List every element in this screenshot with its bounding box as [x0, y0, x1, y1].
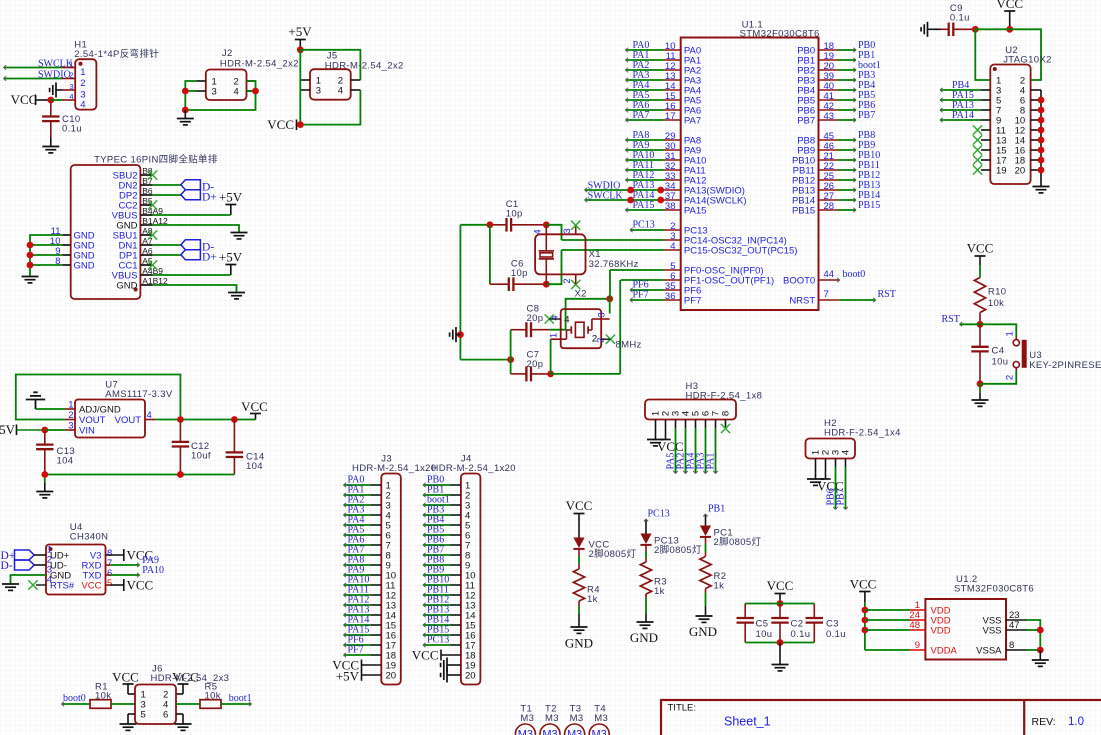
power flag VCC at U4 pin5: [124, 578, 153, 593]
wire PB8: [838, 138, 856, 142]
svg-text:PF7: PF7: [633, 289, 649, 300]
net label PA13 at J3: [348, 605, 370, 616]
svg-text:0.1u: 0.1u: [950, 13, 970, 24]
wire VCC bus U1.2: [864, 602, 866, 650]
svg-text:VCC: VCC: [127, 578, 154, 593]
wire PA10 to J3: [344, 583, 372, 587]
svg-text:10k: 10k: [95, 691, 111, 702]
svg-text:PF7: PF7: [348, 645, 364, 656]
net label PA15 at J3: [348, 625, 370, 636]
wire H2 pin3: [833, 459, 837, 510]
mounting hole T1 M3: [515, 704, 535, 735]
svg-text:AMS1117-3.3V: AMS1117-3.3V: [105, 389, 173, 400]
wire C8 to PF0 net: [550, 299, 610, 330]
svg-text:2: 2: [595, 338, 606, 343]
ground at J4 pin20: [441, 668, 461, 683]
junction C4 bottom: [977, 380, 984, 387]
capacitor C8 20p: [511, 304, 550, 338]
net label PB9: [858, 140, 875, 151]
wire PB1 to LED: [703, 514, 707, 526]
svg-text:GND: GND: [565, 636, 593, 651]
ground below C10: [42, 138, 59, 153]
wire H2 pin1 to ground: [815, 459, 817, 479]
svg-text:VCC: VCC: [566, 498, 593, 513]
power flag VCC at H1 pin4: [11, 92, 51, 107]
svg-text:D+: D+: [202, 191, 217, 203]
net label PA7: [633, 110, 650, 121]
svg-text:VCC: VCC: [850, 577, 877, 592]
wire PA3 to U1.1: [626, 78, 665, 82]
net label boot0: [843, 269, 866, 280]
connector J2 labels: [220, 48, 299, 70]
svg-text:VCC: VCC: [11, 92, 38, 107]
net label PA3: [633, 70, 650, 81]
wire U2 right ground bus: [1040, 90, 1042, 186]
svg-text:R10: R10: [988, 287, 1006, 298]
svg-text:4: 4: [338, 86, 343, 97]
net label PA4: [633, 80, 650, 91]
wire PF6 to J3: [344, 643, 372, 647]
no-connect H3 pin8: [721, 420, 730, 434]
wire J6 pin6 to ground: [176, 714, 183, 724]
junction SWDIO b: [657, 187, 664, 194]
wire U2 pin1 vertical: [975, 29, 990, 80]
wire cap rail bottom: [745, 642, 814, 644]
capacitor C1 10p: [490, 199, 546, 232]
svg-text:10u: 10u: [992, 357, 1009, 368]
crystal X2 pin4 no-connect: [545, 314, 570, 325]
wire LED to R4: [578, 549, 580, 565]
junction C9 right: [972, 26, 979, 33]
wire PB8 to J4: [423, 563, 451, 567]
connector J3 labels: [352, 454, 436, 475]
power flag +5V at VBUS A4B9: [219, 250, 243, 276]
svg-text:PF7: PF7: [684, 296, 701, 307]
ic U1.2 VDD pins: [909, 600, 957, 657]
wire PF1 to crystal X2: [621, 279, 664, 281]
svg-text:PA15: PA15: [684, 206, 707, 217]
net label PA10: [633, 150, 655, 161]
svg-text:9: 9: [915, 640, 920, 651]
wire PB6: [838, 108, 856, 112]
wire PB12 to J4: [423, 603, 451, 607]
net label PA7 at J3: [348, 545, 365, 556]
svg-text:4: 4: [564, 315, 569, 326]
ic U2 right pin stubs: [1031, 90, 1041, 170]
power flag VCC at J6 pin1: [112, 670, 139, 695]
power flag VCC at H3 pin2: [657, 439, 684, 454]
svg-text:RTS#: RTS#: [50, 581, 75, 592]
net label PA2 at J3: [348, 495, 365, 506]
svg-text:VOUT: VOUT: [115, 415, 142, 426]
net label PA15 at U2: [952, 90, 974, 101]
svg-text:VSSA: VSSA: [976, 646, 1002, 657]
net label PA13: [633, 180, 655, 191]
svg-text:M3: M3: [567, 729, 582, 735]
svg-text:HDR-M-2.54_2x3: HDR-M-2.54_2x3: [151, 673, 230, 684]
wire V3 to VCC flag: [106, 554, 124, 556]
junction cap rail bottom: [777, 639, 784, 646]
junction VSS47: [1037, 627, 1044, 634]
connector H1 pins and pin numbers: [62, 60, 86, 111]
connector J4 pin stubs: [451, 485, 461, 645]
wire RST stub: [960, 322, 981, 326]
wire PA14 to J3: [344, 623, 372, 627]
wire PB7 to J4: [423, 553, 451, 557]
crystal X2 pin1 stub: [549, 333, 561, 339]
svg-text:PB7: PB7: [858, 110, 875, 121]
net label PB10 at J4: [427, 575, 449, 586]
capacitor C12 10uf: [172, 420, 211, 475]
connector J5 body and pin names: [310, 69, 351, 100]
net label SWDIO at U1.1: [588, 180, 621, 191]
svg-text:20p: 20p: [527, 313, 544, 324]
wire H3 pin4: [683, 420, 687, 474]
wire SWDIO to PA13: [585, 188, 664, 192]
junction VCC cap rail top: [777, 600, 784, 607]
svg-text:GND: GND: [116, 281, 137, 292]
svg-text:VCC: VCC: [241, 399, 268, 414]
svg-text:20: 20: [465, 671, 476, 682]
ic U4 labels: [70, 522, 109, 543]
svg-text:1: 1: [1005, 331, 1016, 336]
net label PB6 at H2: [826, 488, 837, 505]
net label PA10 at J3: [348, 575, 370, 586]
svg-text:19: 19: [996, 166, 1007, 177]
wire TYPEC left GND bus: [30, 235, 62, 276]
wire PA11 to J3: [344, 593, 372, 597]
wire PB10 to J4: [423, 583, 451, 587]
wire J5 pin1 to VCC: [299, 50, 301, 125]
svg-text:10p: 10p: [511, 268, 528, 279]
svg-text:VIN: VIN: [79, 426, 95, 437]
net label PB14: [858, 190, 880, 201]
connector USB TYPEC body: [71, 165, 141, 299]
svg-text:M3: M3: [545, 713, 559, 724]
svg-text:J2: J2: [222, 48, 233, 59]
wire PF0 to crystal X2: [610, 269, 664, 271]
wire D- to UD-: [34, 564, 46, 566]
ground at A1B12: [228, 293, 245, 299]
svg-text:44: 44: [824, 269, 835, 280]
junction ground rail: [457, 331, 464, 338]
wire PF0 vertical to X2 pin3: [609, 270, 611, 314]
wire VSS bus: [1026, 620, 1040, 650]
wire PA9 to J3: [344, 573, 372, 577]
power flag +5V at VBUS B4A9: [219, 190, 243, 216]
svg-text:RST: RST: [942, 314, 960, 325]
svg-text:VCC: VCC: [112, 670, 139, 685]
svg-text:M3: M3: [542, 729, 557, 735]
junction VDD48: [862, 627, 869, 634]
wire VBUS B4A9: [153, 214, 231, 216]
wire LED to R3: [645, 545, 647, 558]
power flag +5V at VIN: [0, 422, 45, 437]
net label PB1 at J4: [427, 485, 444, 496]
wire VCC to LED: [578, 514, 580, 538]
connector J6 labels: [151, 664, 230, 685]
svg-text:M3: M3: [570, 713, 584, 724]
wire PA8 to J3: [344, 563, 372, 567]
svg-text:4: 4: [841, 450, 852, 455]
net label PB14 at J4: [427, 615, 449, 626]
wire SWCLK to PA14: [585, 198, 664, 202]
wire PA2 to U1.1: [626, 68, 665, 72]
net label PA9: [633, 140, 650, 151]
svg-text:1k: 1k: [714, 581, 725, 592]
net label PA0: [633, 40, 650, 51]
svg-text:boot1: boot1: [229, 693, 252, 704]
wire VCC to H1 pin4: [51, 99, 62, 101]
resistor R4 1k: [573, 565, 599, 607]
connector H1 reference and value labels: [74, 40, 159, 61]
svg-text:VCC: VCC: [81, 581, 101, 592]
title block border: [661, 700, 1101, 735]
wire PA2 to J3: [344, 503, 372, 507]
wire X1 pin4 to PC14: [546, 225, 561, 240]
svg-text:104: 104: [246, 461, 263, 472]
net label PB15: [858, 200, 880, 211]
svg-text:GND: GND: [689, 624, 717, 639]
net label PA2: [633, 60, 650, 71]
wire PA9 to U1.1: [626, 148, 665, 152]
svg-text:2: 2: [1005, 375, 1016, 380]
wire PF7 to J3: [344, 653, 372, 657]
svg-text:boot0: boot0: [63, 693, 86, 704]
crystal X2 pin3 stub: [596, 312, 609, 319]
svg-text:PB7: PB7: [836, 488, 847, 505]
svg-text:VCC: VCC: [967, 241, 994, 256]
wire PA4 to U1.1: [626, 88, 665, 92]
svg-text:+5V: +5V: [0, 422, 16, 437]
svg-text:PB15: PB15: [858, 200, 880, 211]
svg-text:2脚0805灯: 2脚0805灯: [589, 549, 637, 560]
wire PB9: [838, 148, 856, 152]
net label boot0 at R1: [63, 693, 86, 704]
junction VIN node: [41, 427, 48, 434]
wire boot1: [838, 68, 856, 72]
net label RST: [942, 314, 960, 325]
regulator U7 body and pins: [65, 400, 155, 438]
title block TITLE text: [668, 703, 697, 714]
wire J5 pin4 to VCC rail: [300, 90, 360, 125]
ic U2 labels: [1003, 45, 1052, 66]
power flag VCC at U1.2: [850, 577, 877, 603]
junction +5V node: [297, 46, 304, 53]
power flag VCC at V3: [124, 548, 153, 563]
svg-text:VCC: VCC: [996, 0, 1023, 11]
net label PF6 at J3: [348, 635, 364, 646]
wire PB10: [838, 158, 856, 162]
net label PA10: [142, 565, 164, 576]
svg-text:VDDA: VDDA: [931, 646, 958, 657]
junction TYPEC gnd 9: [27, 252, 34, 259]
svg-text:M3: M3: [592, 729, 607, 735]
ground below R4: [565, 627, 593, 651]
wire PC15 from X1: [562, 249, 665, 251]
ground rail vertical left of crystals: [459, 225, 461, 360]
led PC1 0805: [700, 526, 762, 549]
ic U2 body: [990, 65, 1030, 185]
wire VBUS A4B9: [153, 274, 231, 276]
capacitor C9 0.1u: [941, 3, 975, 36]
ic U1.1 NRST pin: [789, 289, 839, 307]
net label PA15: [633, 200, 655, 211]
wire PA15 to U2: [940, 98, 981, 102]
net label PB11 at J4: [427, 585, 449, 596]
wire PA11 to U1.1: [626, 168, 665, 172]
svg-text:VCC: VCC: [267, 117, 294, 132]
wire PB9 to J4: [423, 573, 451, 577]
resistor R3 1k: [640, 558, 666, 598]
wire X2 pin1 vertical: [550, 339, 552, 374]
net label PB1: [858, 50, 875, 61]
svg-text:PC13: PC13: [633, 219, 655, 230]
net label PA5: [633, 90, 650, 101]
wire SWDIO to H1 pin2: [4, 76, 63, 80]
svg-text:10k: 10k: [988, 298, 1004, 309]
junction VCC top right: [1006, 26, 1013, 33]
connector J4 pin numbers: [465, 481, 476, 682]
svg-text:HDR-F-2.54_1x4: HDR-F-2.54_1x4: [824, 428, 901, 439]
ground below C2: [772, 643, 789, 671]
wire R1 to J6 pin3: [111, 703, 135, 705]
net label PB9 at J4: [427, 565, 444, 576]
wire PF7: [630, 298, 664, 302]
net label PB11: [858, 160, 880, 171]
ground left of C9: [921, 22, 941, 37]
connector J3 pin numbers: [386, 481, 397, 682]
net label PA6 at J3: [348, 535, 365, 546]
svg-text:TITLE:: TITLE:: [668, 703, 697, 714]
net label PB4 at J4: [427, 515, 444, 526]
wire PA6 to U1.1: [626, 108, 665, 112]
svg-text:CH340N: CH340N: [70, 532, 109, 543]
wire PA0 to J3: [344, 483, 372, 487]
led PC13 0805: [640, 534, 702, 557]
net label PB6: [858, 100, 875, 111]
wire J2 left loop: [185, 81, 255, 110]
ic U1.2 body: [925, 599, 1006, 660]
capacitor C14 104: [226, 420, 265, 475]
wire PA15 to J3: [344, 633, 372, 637]
junction VDD1: [862, 607, 869, 614]
wire PA13 to U2: [940, 108, 981, 112]
svg-text:3: 3: [562, 228, 573, 233]
svg-text:GND: GND: [630, 630, 658, 645]
ground TYPEC left: [22, 277, 39, 283]
ground at H3 pin1: [647, 440, 664, 446]
power flag VCC above power LED: [566, 498, 593, 514]
wire X1 pin2 to PC15: [546, 250, 561, 284]
svg-text:3: 3: [212, 87, 217, 98]
net label PA11: [633, 160, 655, 171]
ground at U1.2: [1032, 660, 1049, 666]
wire PB3 to J4: [423, 513, 451, 517]
power flag VCC above C2: [767, 578, 794, 604]
ground at B1A12: [231, 233, 248, 239]
ic U1.1 body: [681, 38, 819, 311]
svg-text:3: 3: [69, 82, 73, 91]
wire PA7 to J3: [344, 553, 372, 557]
wire PB6 to J4: [423, 543, 451, 547]
wire H3 pin1 to ground: [655, 420, 657, 440]
net label PA3 at H3: [696, 453, 707, 470]
net label RST at NRST: [878, 289, 896, 300]
resistor R1 10k: [90, 682, 111, 709]
wire TXD to PA10: [106, 573, 140, 577]
wire J6 pin5 to ground: [128, 714, 135, 724]
capacitor C7 20p: [511, 350, 551, 382]
svg-text:C5: C5: [756, 619, 769, 630]
power flag VCC at J4 pin18: [412, 647, 461, 662]
net label PA12: [633, 170, 655, 181]
wire PA15 to U1.1: [626, 208, 665, 212]
ic U1.2 VSS pins: [976, 610, 1026, 657]
svg-text:M3: M3: [520, 713, 534, 724]
wire PB15: [838, 208, 856, 212]
connector J3 body: [381, 474, 401, 685]
svg-text:8: 8: [721, 411, 732, 416]
connector USB TYPEC left pins GND: [50, 226, 95, 272]
wire boot1 to J4: [423, 503, 451, 507]
net label boot1: [858, 60, 881, 71]
svg-text:REV:: REV:: [1032, 716, 1056, 728]
resistor R2 1k: [700, 553, 726, 593]
svg-text:M3: M3: [518, 729, 533, 735]
port D- lower: [181, 240, 214, 254]
ground at J4 pin19: [441, 658, 461, 673]
svg-text:STM32F030C8T6: STM32F030C8T6: [954, 584, 1034, 595]
wire PA4 to J3: [344, 523, 372, 527]
ground below R3: [630, 622, 658, 645]
wire H3 pin2 to VCC: [665, 420, 667, 440]
port D+ lower: [181, 250, 217, 263]
connector J4 labels: [432, 454, 516, 475]
connector J2 body and pin names: [206, 70, 247, 101]
port D- upper: [181, 180, 214, 194]
net label PA8 at J3: [348, 555, 365, 566]
junction PF0 node: [606, 295, 613, 302]
mounting hole T4 M3: [589, 704, 609, 735]
junction TYPEC gnd 10: [27, 242, 34, 249]
junction VDD24: [862, 617, 869, 624]
power flag VCC at J3 pin19: [332, 657, 381, 672]
ground below U2: [1033, 187, 1050, 193]
wire GND B1A12: [153, 225, 239, 232]
svg-text:boot0: boot0: [843, 269, 866, 280]
ground below C13: [36, 483, 53, 498]
svg-text:1k: 1k: [587, 594, 598, 605]
svg-text:GND: GND: [74, 261, 95, 272]
led VCC 0805: [573, 538, 636, 561]
wire DN1 to D-: [153, 244, 181, 246]
svg-text:0.1u: 0.1u: [791, 629, 811, 640]
wire PA12 to U1.1: [626, 178, 665, 182]
svg-text:8MHz: 8MHz: [616, 340, 642, 351]
wire SWCLK to H1 pin1: [4, 65, 63, 69]
junction J2 pin4: [252, 88, 259, 95]
svg-text:1: 1: [549, 333, 560, 338]
net label PA0 at J3: [348, 475, 365, 486]
wire PA1 to J3: [344, 493, 372, 497]
wire PA5 to J3: [344, 533, 372, 537]
wire PA7 to U1.1: [626, 118, 665, 122]
wire PA3 to J3: [344, 513, 372, 517]
net label PA2 at H3: [676, 453, 687, 470]
wire R4 to ground: [578, 606, 580, 627]
net label PB10: [858, 150, 880, 161]
